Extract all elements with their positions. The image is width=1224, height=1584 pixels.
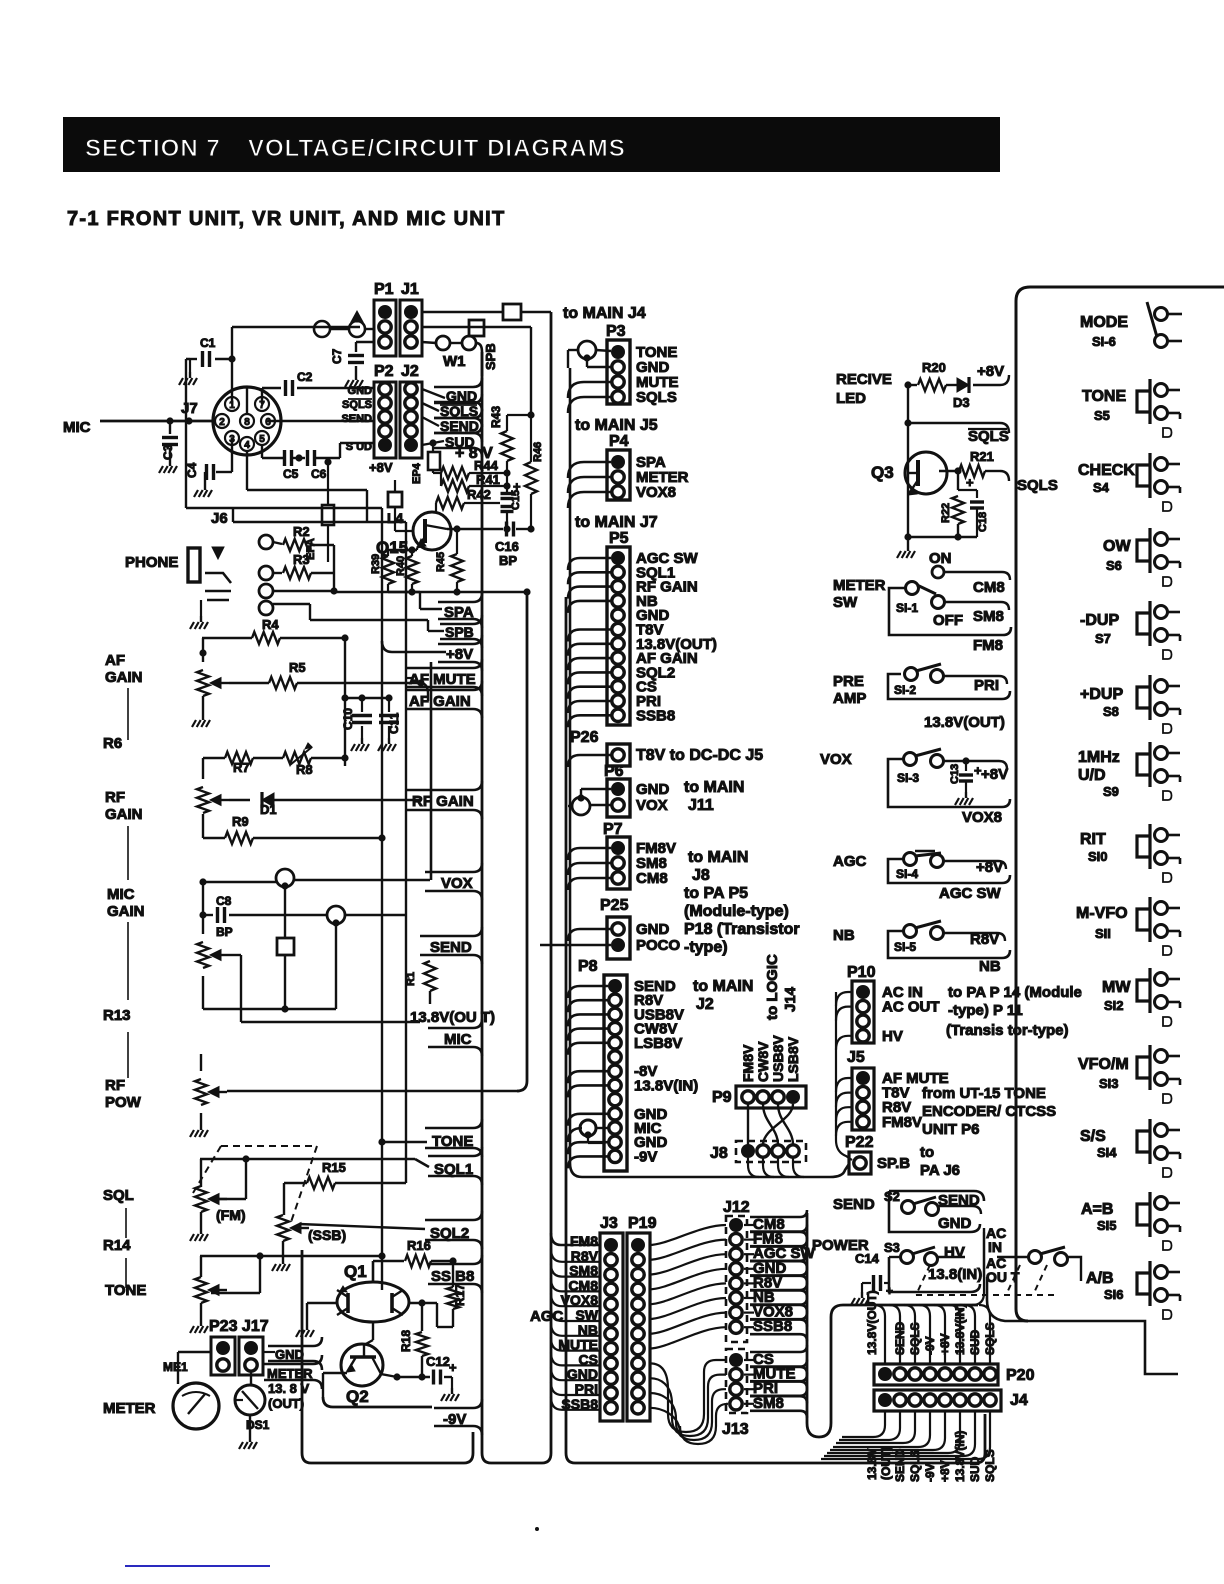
switch S1-1 box	[889, 588, 1011, 635]
Q15 bottom rail	[388, 591, 530, 593]
dashed coupling to Q1	[287, 1221, 382, 1223]
svg-text:1MHz: 1MHz	[1078, 749, 1120, 766]
svg-text:C3: C3	[161, 444, 175, 460]
svg-text:S3: S3	[884, 1240, 900, 1255]
connector P5	[607, 547, 630, 725]
svg-text:J13: J13	[722, 1421, 749, 1438]
svg-text:AMP: AMP	[833, 690, 866, 707]
svg-text:J4: J4	[1010, 1392, 1028, 1409]
svg-text:ON: ON	[929, 550, 952, 567]
flag +8V	[438, 635, 482, 671]
wire J1 pin2 to vertical x531	[422, 326, 531, 328]
svg-text:FM8V: FM8V	[740, 1044, 756, 1082]
flag VOX	[425, 863, 482, 900]
svg-text:NB: NB	[833, 927, 855, 944]
svg-text:C10: C10	[341, 708, 355, 730]
svg-text:SPB: SPB	[483, 343, 498, 370]
svg-text:SQLS: SQLS	[342, 399, 372, 411]
svg-text:AC OUT: AC OUT	[882, 999, 940, 1016]
svg-text:R45: R45	[435, 552, 447, 572]
resistor R41	[441, 480, 469, 492]
svg-text:C7: C7	[330, 348, 344, 364]
svg-text:6: 6	[265, 417, 271, 428]
flag SPA	[438, 593, 482, 628]
crossing wires P9-J8	[747, 1104, 749, 1145]
flag RF GAIN	[405, 781, 482, 819]
flag AF GAIN	[405, 681, 482, 718]
svg-text:J14: J14	[782, 986, 799, 1012]
svg-text:D3: D3	[953, 395, 970, 410]
svg-text:TONE: TONE	[105, 1282, 146, 1299]
svg-text:VOX8: VOX8	[962, 809, 1002, 826]
svg-text:13.8V(IN): 13.8V(IN)	[634, 1077, 698, 1094]
svg-text:to MAIN: to MAIN	[693, 978, 753, 995]
P10 fan wires	[836, 992, 852, 1006]
svg-text:SI5: SI5	[1097, 1218, 1117, 1233]
svg-text:to MAIN J4: to MAIN J4	[563, 305, 646, 322]
wire W1 to flag bus	[476, 343, 482, 376]
svg-text:ENCODER/ CTCSS: ENCODER/ CTCSS	[922, 1103, 1056, 1120]
switch S1-5 box	[888, 931, 1010, 958]
svg-text:13.8(IN): 13.8(IN)	[928, 1266, 982, 1283]
svg-text:P20: P20	[1006, 1367, 1035, 1384]
svg-text:R2: R2	[293, 524, 310, 539]
connector J3	[600, 1233, 623, 1421]
svg-text:SECTION 7: SECTION 7	[85, 135, 221, 162]
svg-text:POCO: POCO	[636, 937, 681, 954]
svg-text:SPA: SPA	[444, 604, 474, 621]
flag GND (J17)	[268, 1337, 322, 1370]
svg-text:+: +	[449, 1360, 457, 1375]
svg-text:VFO/M: VFO/M	[1078, 1056, 1129, 1073]
P19 to J12 sweeping wires	[649, 1225, 726, 1245]
wire VOX flag	[203, 881, 276, 883]
svg-text:C18: C18	[977, 512, 989, 532]
svg-text:BP: BP	[216, 925, 233, 939]
J8 tails downward into P22 bus wire	[748, 1158, 759, 1177]
svg-text:4: 4	[244, 440, 250, 451]
svg-text:S/S: S/S	[1080, 1128, 1106, 1145]
svg-text:(SSB): (SSB)	[308, 1227, 346, 1243]
svg-text:(FM): (FM)	[216, 1207, 246, 1223]
svg-text:GAIN: GAIN	[105, 669, 143, 686]
lamp DS1	[235, 1385, 265, 1415]
svg-text:C2: C2	[297, 370, 313, 384]
svg-text:to MAIN: to MAIN	[684, 779, 744, 796]
MIC GAIN pot R13	[197, 942, 209, 968]
connector P23	[211, 1337, 235, 1375]
svg-text:to MAIN J5: to MAIN J5	[575, 417, 658, 434]
svg-text:GND: GND	[275, 1347, 304, 1362]
svg-text:Q3: Q3	[871, 463, 894, 482]
branch wire x551 to J3 pin1	[551, 1233, 600, 1245]
svg-text:VOX: VOX	[820, 751, 852, 768]
svg-text:J11: J11	[688, 797, 714, 814]
switch S1-3 box	[888, 759, 1010, 807]
svg-text:METER: METER	[833, 577, 886, 594]
tag divider vertical wire	[430, 662, 433, 880]
svg-text:R5: R5	[289, 660, 306, 675]
svg-text:SM8: SM8	[753, 1395, 784, 1412]
svg-text:R6: R6	[103, 735, 122, 752]
svg-text:-9V: -9V	[443, 1411, 466, 1428]
flag -9V	[434, 1399, 482, 1435]
wire LED branch	[907, 385, 909, 423]
svg-text:P23 J17: P23 J17	[209, 1318, 269, 1335]
svg-text:SSB8: SSB8	[636, 707, 675, 724]
mic connector J7 (8-pin circular)	[213, 387, 281, 455]
svg-text:P10: P10	[847, 964, 876, 981]
Q3 ground rail	[908, 536, 977, 538]
svg-text:SQL1: SQL1	[434, 1161, 473, 1178]
svg-text:R14: R14	[103, 1237, 131, 1254]
connector P25	[607, 917, 630, 959]
svg-text:+: +	[886, 1284, 893, 1298]
svg-text:Q2: Q2	[346, 1387, 369, 1406]
svg-text:CHECK: CHECK	[1078, 462, 1135, 479]
wire phone to SPA	[333, 545, 335, 592]
svg-text:C8: C8	[216, 894, 232, 908]
svg-text:MODE: MODE	[1080, 314, 1128, 331]
svg-text:GND: GND	[636, 781, 670, 798]
svg-text:NB: NB	[979, 958, 1001, 975]
connector P1	[374, 300, 396, 356]
flag SEND (J2)	[434, 409, 482, 442]
flag GND (J2)	[434, 378, 482, 411]
switch S1-2	[888, 674, 1010, 699]
svg-text:P5: P5	[609, 530, 629, 547]
svg-text:R3: R3	[293, 552, 310, 567]
connector P8	[604, 975, 627, 1171]
svg-text:P1: P1	[374, 281, 394, 298]
shield circle at P3	[578, 341, 596, 359]
svg-text:T8V to DC-DC J5: T8V to DC-DC J5	[636, 747, 763, 764]
svg-text:R9: R9	[232, 814, 249, 829]
wires R44 R41 R42	[433, 472, 441, 474]
svg-text:LED: LED	[836, 390, 866, 407]
svg-text:UNIT P6: UNIT P6	[922, 1121, 980, 1138]
svg-text:+8V: +8V	[981, 766, 1008, 783]
svg-text:GND: GND	[938, 1215, 972, 1232]
svg-text:SPB: SPB	[445, 624, 474, 640]
svg-text:AF: AF	[105, 652, 125, 669]
svg-text:USB8V: USB8V	[770, 1035, 786, 1082]
svg-text:FM8: FM8	[973, 637, 1003, 654]
flag MIC	[428, 1019, 482, 1056]
svg-text:-DUP: -DUP	[1080, 612, 1119, 629]
wire POCO from left	[540, 944, 611, 946]
svg-text:+: +	[966, 475, 974, 490]
svg-text:R39: R39	[370, 554, 382, 574]
bottom joining wire	[202, 976, 204, 1009]
connector P7	[607, 837, 630, 889]
svg-text:RF GAIN: RF GAIN	[412, 793, 474, 810]
svg-text:R22: R22	[940, 503, 952, 523]
svg-text:TONE: TONE	[432, 1133, 473, 1150]
svg-text:TONE: TONE	[1082, 388, 1126, 405]
svg-text:SQLS: SQLS	[908, 1449, 922, 1482]
svg-text:SI0: SI0	[1088, 849, 1108, 864]
svg-text:S5: S5	[1094, 408, 1110, 423]
dashed linkage	[1006, 1265, 1020, 1295]
svg-text:R18: R18	[399, 1330, 413, 1352]
connector P3	[607, 340, 630, 404]
svg-text:(Transis tor-type): (Transis tor-type)	[946, 1022, 1069, 1039]
svg-text:HV: HV	[882, 1028, 903, 1045]
svg-text:OFF: OFF	[933, 612, 963, 629]
svg-text:P19: P19	[628, 1215, 657, 1232]
svg-text:S9: S9	[1103, 784, 1119, 799]
svg-text:R4: R4	[262, 617, 279, 632]
svg-text:RF: RF	[105, 1077, 125, 1094]
svg-text:SQLS: SQLS	[983, 1449, 997, 1482]
svg-text:P26: P26	[570, 729, 599, 746]
svg-text:C5: C5	[283, 467, 299, 481]
svg-text:LSB8V: LSB8V	[634, 1035, 682, 1052]
svg-text:CM8: CM8	[636, 870, 668, 887]
svg-text:C6: C6	[311, 467, 327, 481]
connector P26	[607, 744, 630, 766]
svg-text:RIT: RIT	[1080, 831, 1106, 848]
flag SUD (J2)	[434, 424, 482, 457]
svg-text:EP4: EP4	[411, 462, 423, 484]
svg-text:VOLTAGE/CIRCUIT DIAGRAMS: VOLTAGE/CIRCUIT DIAGRAMS	[248, 135, 626, 162]
svg-text:J2: J2	[696, 996, 714, 1013]
svg-text:P22: P22	[845, 1134, 874, 1151]
svg-text:to: to	[920, 1144, 934, 1161]
front unit box left edge	[566, 597, 985, 1463]
svg-text:R1: R1	[405, 972, 417, 986]
cable bus from J12/J13 flags with U-turn to P20 fan	[807, 1213, 978, 1437]
svg-text:13.8V(OUT): 13.8V(OUT)	[924, 714, 1005, 731]
svg-text:SII: SII	[1095, 926, 1111, 941]
flag SEND with R1	[420, 927, 482, 964]
connector J2	[400, 382, 422, 458]
svg-text:S2: S2	[884, 1189, 900, 1204]
svg-text:VOX: VOX	[441, 875, 473, 892]
svg-text:MIC: MIC	[444, 1031, 472, 1048]
svg-text:A/B: A/B	[1086, 1270, 1114, 1287]
svg-text:Q1: Q1	[344, 1262, 367, 1281]
J13 dashed connector	[726, 1349, 747, 1413]
svg-text:GAIN: GAIN	[105, 806, 143, 823]
svg-text:S UD: S UD	[346, 441, 372, 453]
svg-text:J1: J1	[401, 281, 419, 298]
svg-text:P2: P2	[374, 363, 394, 380]
svg-text:A=B: A=B	[1081, 1201, 1113, 1218]
svg-text:U/D: U/D	[1078, 767, 1106, 784]
svg-text:(OUT): (OUT)	[268, 1396, 304, 1411]
wire from S-flag bus into cable	[972, 1232, 984, 1305]
svg-text:SI2: SI2	[1104, 998, 1124, 1013]
svg-text:13.8V(OUT): 13.8V(OUT)	[865, 1290, 879, 1355]
svg-text:S6: S6	[1106, 558, 1122, 573]
svg-text:AF GAIN: AF GAIN	[409, 693, 471, 710]
Q15 emitter rail	[388, 549, 417, 551]
svg-text:RECIVE: RECIVE	[836, 371, 892, 388]
connector P19	[627, 1233, 650, 1421]
P3 fan wires	[567, 350, 569, 368]
connector J1	[400, 300, 422, 356]
flag bus vertical line with bottom U to J1 long wire	[482, 312, 551, 1463]
wire bus to P22 SP.B	[570, 1163, 849, 1177]
svg-text:8: 8	[244, 417, 250, 428]
svg-text:W1: W1	[443, 353, 466, 370]
svg-text:C14: C14	[855, 1251, 880, 1266]
svg-text:+DUP: +DUP	[1080, 686, 1123, 703]
svg-text:P18 (Transistor: P18 (Transistor	[684, 921, 800, 938]
svg-text:2: 2	[219, 417, 225, 428]
svg-text:METER: METER	[103, 1400, 156, 1417]
svg-text:R42: R42	[467, 487, 491, 502]
shield circle at P8 MIC pin	[568, 1128, 582, 1142]
svg-text:SI3: SI3	[1099, 1076, 1119, 1091]
svg-text:R41: R41	[476, 472, 500, 487]
VR unit box bottom	[302, 1250, 473, 1463]
svg-text:IN: IN	[988, 1239, 1002, 1255]
svg-text:METER: METER	[267, 1366, 313, 1381]
svg-text:J6: J6	[211, 510, 228, 527]
svg-text:P8: P8	[578, 958, 598, 975]
svg-text:C1: C1	[200, 336, 216, 350]
svg-text:+8V: +8V	[977, 363, 1004, 380]
svg-text:R13: R13	[103, 1007, 131, 1024]
svg-text:P9: P9	[712, 1089, 732, 1106]
flag TONE	[425, 1119, 482, 1157]
svg-text:SI-1: SI-1	[896, 601, 918, 615]
svg-text:AGC: AGC	[530, 1308, 564, 1325]
svg-text:GND: GND	[446, 388, 477, 404]
svg-text:MIC: MIC	[63, 419, 91, 436]
relay box small	[277, 938, 294, 955]
svg-text:R15: R15	[322, 1160, 346, 1175]
svg-text:R46: R46	[532, 442, 544, 462]
svg-text:to MAIN: to MAIN	[688, 849, 748, 866]
svg-text:MW: MW	[1102, 979, 1131, 996]
svg-text:5: 5	[259, 434, 265, 445]
connector P20	[874, 1364, 998, 1385]
svg-text:-9V: -9V	[634, 1148, 657, 1165]
svg-text:from UT-15 TONE: from UT-15 TONE	[922, 1085, 1046, 1102]
svg-text:S8: S8	[1103, 704, 1119, 719]
svg-text:OW: OW	[1103, 538, 1131, 555]
svg-text:J7: J7	[181, 400, 198, 417]
svg-text:FM8: FM8	[570, 1233, 598, 1249]
svg-text:PA J6: PA J6	[920, 1162, 960, 1179]
svg-text:P4: P4	[609, 433, 629, 450]
long vertical wires from mic shell	[381, 508, 383, 838]
svg-text:+: +	[513, 479, 521, 494]
svg-text:SI-2: SI-2	[894, 683, 916, 697]
svg-text:SW: SW	[833, 594, 858, 611]
P20 wires branch down from cable	[874, 1305, 885, 1364]
wire pin6 to P2	[268, 420, 374, 422]
svg-text:SQLS: SQLS	[636, 389, 677, 406]
resistor R42	[436, 497, 464, 509]
svg-text:R21: R21	[970, 449, 994, 464]
flag SPB	[440, 615, 482, 648]
svg-text:AGC: AGC	[833, 853, 867, 870]
svg-text:(Module-type): (Module-type)	[684, 903, 789, 920]
svg-text:J12: J12	[723, 1199, 750, 1216]
mic shell wires J6	[185, 359, 187, 508]
flag SQL1	[428, 1147, 482, 1185]
svg-text:SUD: SUD	[968, 1456, 982, 1482]
flag SS B8	[428, 1255, 482, 1293]
svg-text:C16: C16	[495, 539, 519, 554]
svg-text:to LOGIC: to LOGIC	[764, 954, 781, 1020]
connector P6	[607, 779, 630, 817]
svg-text:SEND: SEND	[430, 939, 472, 956]
svg-text:to MAIN J7: to MAIN J7	[575, 514, 658, 531]
connector J17	[239, 1337, 263, 1375]
svg-text:C12: C12	[426, 1354, 450, 1369]
wire pin8 riser	[246, 388, 248, 414]
shield circle at P6	[572, 797, 590, 815]
P19 to J13 wires with U loops	[650, 1360, 726, 1432]
SPB square terminal	[469, 320, 484, 336]
svg-text:FM8V: FM8V	[882, 1114, 922, 1131]
svg-text:SI4: SI4	[1097, 1145, 1117, 1160]
wires P1 top area circles	[314, 321, 330, 337]
svg-text:GAIN: GAIN	[107, 903, 145, 920]
center bus vertical	[569, 368, 572, 1163]
svg-text:SM8: SM8	[973, 608, 1004, 625]
svg-text:R20: R20	[922, 360, 946, 375]
svg-text:MIC: MIC	[107, 886, 135, 903]
svg-text:to PA P5: to PA P5	[684, 885, 748, 902]
svg-text:-type): -type)	[684, 939, 728, 956]
Q1 base wire and ground	[307, 1302, 337, 1305]
svg-text:SP.B: SP.B	[877, 1155, 910, 1172]
flag AF MUTE	[405, 659, 482, 696]
SSB pot	[277, 1215, 289, 1241]
svg-text:P25: P25	[600, 897, 629, 914]
J4 wires down merging into bottom border	[842, 1411, 885, 1437]
svg-text:CW8V: CW8V	[755, 1041, 771, 1082]
svg-text:+8V: +8V	[369, 460, 393, 475]
svg-text:SI6: SI6	[1104, 1287, 1124, 1302]
svg-text:SQLS: SQLS	[1017, 477, 1058, 494]
diode D3	[957, 378, 969, 392]
jumper W1	[436, 336, 450, 350]
svg-text:SEND: SEND	[938, 1192, 980, 1209]
svg-text:AGC SW: AGC SW	[939, 885, 1002, 902]
logic unit box edge	[1016, 287, 1224, 1321]
svg-text:PRI: PRI	[974, 677, 999, 694]
vertical wire x527 down to RF POW wire	[517, 595, 527, 1091]
svg-text:PHONE: PHONE	[125, 554, 178, 571]
svg-text:S7: S7	[1095, 631, 1111, 646]
blue underline mark bottom left	[125, 1565, 270, 1567]
shield circles	[276, 869, 294, 887]
svg-text:ME1: ME1	[163, 1360, 188, 1374]
wire pin1 up to top rail	[231, 359, 233, 404]
inductor L4	[388, 492, 402, 507]
svg-text:POW: POW	[105, 1094, 142, 1111]
svg-text:SI-6: SI-6	[1092, 334, 1116, 349]
svg-text:SQL: SQL	[103, 1187, 134, 1204]
svg-text:SQLS: SQLS	[968, 428, 1009, 445]
svg-text:RF: RF	[105, 789, 125, 806]
svg-text:R16: R16	[407, 1238, 431, 1253]
flag METER	[264, 1355, 322, 1389]
svg-text:SEND: SEND	[440, 418, 479, 434]
Q1 Q2 box to -9V	[323, 1397, 432, 1407]
svg-text:LSB8V: LSB8V	[785, 1036, 801, 1082]
svg-text:J3: J3	[600, 1215, 618, 1232]
flag SQLS-bar (J2)	[434, 394, 482, 427]
